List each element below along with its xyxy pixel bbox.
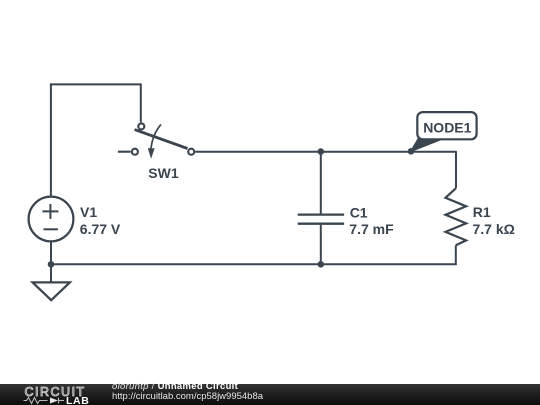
wire ground stub <box>50 264 52 282</box>
svg-text:NODE1: NODE1 <box>423 119 471 135</box>
resistor R1 <box>446 152 467 265</box>
svg-text:SW1: SW1 <box>148 165 179 181</box>
svg-text:6.77 V: 6.77 V <box>80 221 121 237</box>
label V1 value <box>80 204 121 237</box>
wire left vertical (top corner to V1 top) <box>50 83 52 196</box>
junction node NODE1 dot <box>408 148 415 155</box>
label C1 value <box>349 205 394 237</box>
wire top horizontal <box>51 83 141 85</box>
ground <box>33 282 70 300</box>
svg-text:7.7 kΩ: 7.7 kΩ <box>473 221 515 237</box>
voltage source V1 <box>29 197 74 242</box>
junction dot left-bottom <box>48 261 55 268</box>
capacitor C1 <box>298 152 344 265</box>
node NODE1 flag <box>411 112 477 151</box>
junction dot cap-bottom <box>318 261 325 268</box>
svg-text:C1: C1 <box>350 205 368 221</box>
svg-text:V1: V1 <box>80 204 97 220</box>
wire V1 bottom <box>50 241 52 264</box>
footer credit text <box>112 383 263 402</box>
wire bottom rail <box>51 263 457 265</box>
wire switch drop <box>140 83 142 122</box>
switch SW1 <box>118 123 194 158</box>
label R1 value <box>473 204 515 237</box>
svg-text:LAB: LAB <box>66 395 89 405</box>
footer bar <box>0 384 540 405</box>
CircuitLab logo <box>0 384 110 405</box>
svg-text:7.7 mF: 7.7 mF <box>349 221 394 237</box>
svg-text:R1: R1 <box>473 204 491 220</box>
wire top rail <box>195 151 457 153</box>
junction dot cap-top <box>318 148 325 155</box>
